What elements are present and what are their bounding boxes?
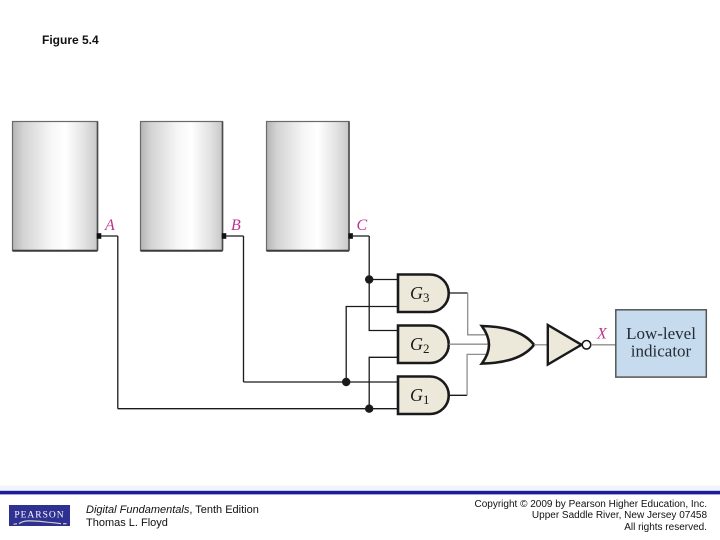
wire A: horizontal to G1 bottom input bbox=[118, 408, 398, 410]
wire A: sensor to corner bbox=[101, 235, 118, 237]
tank C bbox=[267, 122, 350, 251]
AND gate G2 bbox=[398, 326, 449, 364]
svg-text:C: C bbox=[357, 217, 368, 234]
wire B: sensor to corner bbox=[226, 235, 243, 237]
wire G3 output stub bbox=[449, 292, 468, 294]
wire C: sensor to corner bbox=[353, 235, 369, 237]
wire G1 output elbow to OR bottom input bbox=[467, 354, 486, 395]
inverter bubble bbox=[582, 341, 591, 350]
junction dot on B wire bbox=[342, 378, 350, 386]
title: Figure 5.4 bbox=[42, 33, 99, 47]
OR gate bbox=[482, 326, 534, 364]
wire OR output to inverter bbox=[534, 344, 548, 346]
tank B bbox=[141, 122, 223, 251]
footer blue rule bbox=[0, 491, 720, 495]
wire A: vertical drop bbox=[117, 236, 119, 409]
wire B branch: up to G3 bottom input bbox=[346, 307, 398, 383]
footer shade above rule bbox=[0, 486, 720, 491]
svg-text:X: X bbox=[596, 325, 608, 342]
Pearson logo bbox=[9, 505, 70, 527]
wire X: bubble to indicator bbox=[591, 344, 616, 346]
wire B: horizontal to G1 top input bbox=[244, 381, 399, 383]
svg-text:Low-level: Low-level bbox=[626, 324, 696, 343]
AND gate G1 bbox=[398, 377, 449, 415]
AND gate G3 bbox=[398, 275, 449, 313]
wire A branch: up to G2 bottom input bbox=[369, 357, 398, 408]
footer left text bbox=[86, 504, 259, 530]
svg-text:indicator: indicator bbox=[631, 342, 692, 361]
footer right text bbox=[475, 499, 708, 534]
sensor on tank C bbox=[348, 233, 353, 239]
sensor on tank B bbox=[222, 233, 227, 239]
low-level indicator box bbox=[616, 310, 707, 377]
tank A bbox=[13, 122, 98, 251]
junction dot on A wire bbox=[365, 405, 373, 413]
wire C: vertical drop to G2 top input bbox=[369, 236, 398, 331]
inverter bbox=[548, 325, 582, 365]
svg-text:PEARSON: PEARSON bbox=[14, 510, 64, 520]
wire G3 output elbow to OR top input bbox=[468, 293, 487, 335]
wire G2 output to OR middle input bbox=[449, 343, 490, 345]
wire C branch: to G3 top input bbox=[369, 279, 398, 281]
junction dot on C wire at G3 input bbox=[365, 275, 373, 283]
wire B: vertical drop bbox=[243, 236, 245, 382]
svg-text:A: A bbox=[104, 217, 115, 234]
svg-text:B: B bbox=[231, 217, 241, 234]
sensor on tank A bbox=[97, 233, 102, 239]
wire G1 output stub bbox=[449, 394, 467, 396]
